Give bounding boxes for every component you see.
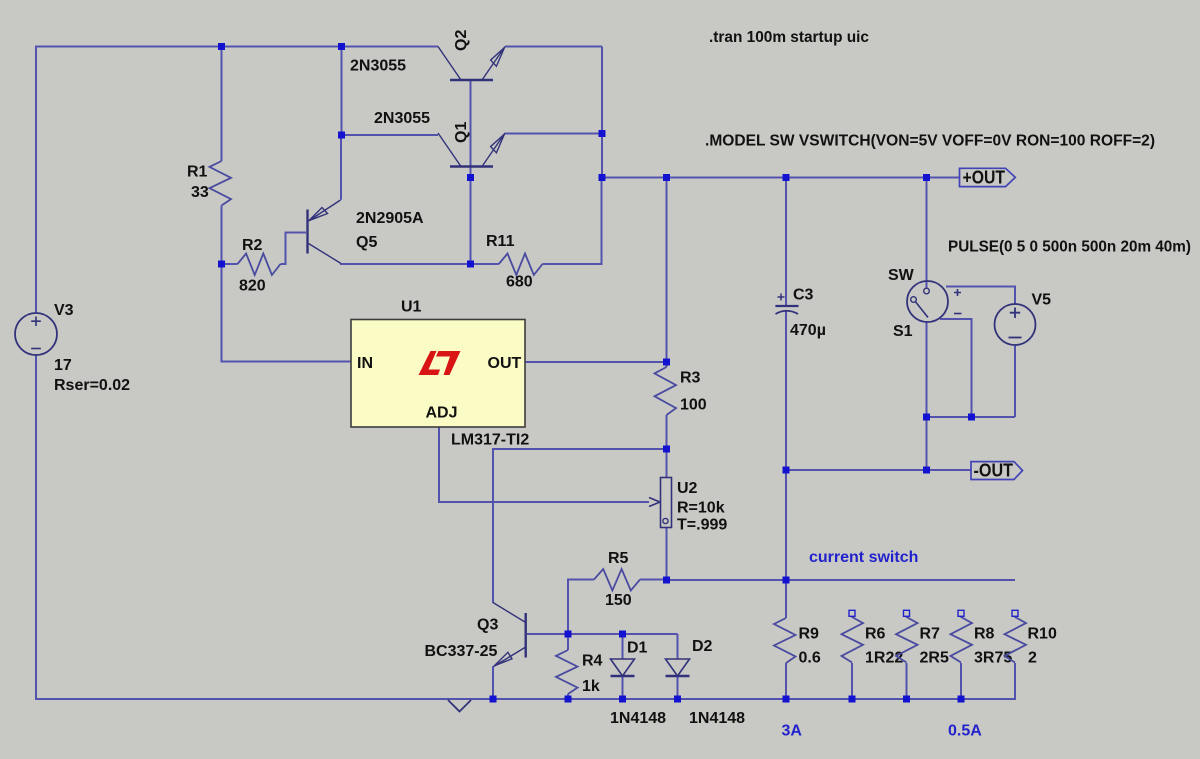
junction (221.5,264) [218,261,225,268]
svg-text:Q1: Q1 [453,122,470,143]
voltage source V3 [15,313,57,355]
transistor Q3 BC337-25 [493,603,526,667]
resistor R7 2R5 [896,617,949,667]
wire R8 stub [960,616,962,617]
svg-text:R9: R9 [799,626,820,643]
switch S1 (SW) [907,281,962,322]
resistor R8 3R75 [951,617,1013,667]
svg-text:2N3055: 2N3055 [350,58,406,75]
svg-text:820: 820 [239,278,266,295]
svg-text:1N4148: 1N4148 [689,710,745,727]
svg-text:17: 17 [54,357,72,374]
svg-text:2: 2 [1028,650,1037,667]
wire Q5 collector run [340,263,471,265]
wire +OUT rail [602,177,960,179]
svg-text:680: 680 [506,274,533,291]
flag -OUT [971,461,1023,481]
junction (971.5,417) [968,414,975,421]
wire R7 bottom lead [906,663,908,699]
svg-text:2N2905A: 2N2905A [356,210,424,227]
svg-text:3A: 3A [782,723,803,740]
wire R5 left lead and drop [568,580,594,635]
transistor Q2 2N3055 [438,30,505,80]
svg-text:R11: R11 [486,233,515,250]
junction (786,699) [783,696,790,703]
svg-text:BC337-25: BC337-25 [425,643,498,660]
wire R9 top lead [785,580,787,618]
wire D1 cathode lead [622,676,624,699]
flag +OUT [960,168,1016,188]
svg-text:current switch: current switch [809,549,918,566]
svg-text:Q5: Q5 [356,234,377,251]
wire D2 anode drop [677,634,679,659]
svg-text:SW: SW [888,267,915,284]
resistor R4 1k [556,650,603,695]
svg-text:R7: R7 [920,626,941,643]
svg-text:U2: U2 [677,480,698,497]
wire R6 bottom lead [851,663,853,699]
transistor Q5 2N2905A [308,200,342,264]
wire V3 minus to ground rail [35,355,37,700]
junction (221.5,46.5) [218,43,225,50]
wire R11 left lead [471,263,499,265]
svg-text:-OUT: -OUT [974,461,1014,481]
wire -OUT rail [786,469,971,471]
junction (568,634) [565,631,572,638]
resistor R1 33 [187,161,231,206]
svg-text:2R5: 2R5 [920,650,949,667]
svg-text:+OUT: +OUT [963,168,1006,188]
svg-text:.MODEL SW VSWITCH(VON=5V VOFF=: .MODEL SW VSWITCH(VON=5V VOFF=0V RON=100… [705,133,1155,150]
wire SW bottom drop [926,322,928,471]
wire Q3 base line [527,633,678,635]
wire R2 node down to U1 IN [222,264,352,362]
junction (786,580) [783,577,790,584]
wire R6 stub [851,616,853,617]
svg-text:S1: S1 [893,323,913,340]
wire R1 bottom to R2 node [221,206,223,265]
svg-text:ADJ: ADJ [426,405,458,422]
diode D1 1N4148 [611,659,635,676]
svg-text:R1: R1 [187,164,208,181]
wire R4 top lead [567,634,569,650]
svg-text:100: 100 [680,397,707,414]
wire transistor base bus [470,80,472,264]
svg-text:470µ: 470µ [790,322,826,339]
resistor R2 820 [238,237,281,295]
wire SW ctrl- run [940,319,972,417]
wire R5 right lead [640,579,667,581]
junction (470.5,264) [467,261,474,268]
regulator U1 LM317-TI2 [351,320,525,428]
svg-text:Q2: Q2 [453,30,470,51]
svg-text:1k: 1k [582,678,600,695]
wire SW ctrl+ to V5 top [946,287,1015,305]
wire R2 left lead [222,263,238,265]
wire R3 bottom to U2 top [666,415,668,478]
wire Q3 collector riser [493,449,667,603]
junction (926.5,177.5) [923,174,930,181]
capacitor C3 470u [775,294,798,315]
wire Q1 emitter run [505,133,602,135]
wire R2 right lead to Q5 base [281,233,307,265]
svg-text:PULSE(0 5 0 500n 500n 20m 40m): PULSE(0 5 0 500n 500n 20m 40m) [948,239,1191,256]
wire R7 stub [906,616,908,617]
svg-text:1N4148: 1N4148 [610,710,666,727]
svg-text:D1: D1 [627,640,648,657]
wire R8 bottom lead [960,663,962,699]
wire R9 bottom lead [785,663,787,699]
svg-text:R8: R8 [974,626,995,643]
wire ground rail [35,698,1015,700]
svg-text:D2: D2 [692,638,713,655]
wire R1 top drop [221,47,223,162]
junction (602,177.5) [599,174,606,181]
svg-text:33: 33 [191,184,209,201]
diode D2 1N4148 [666,659,690,676]
wire U1 ADJ drop [439,427,649,502]
svg-text:U1: U1 [401,299,422,316]
svg-text:T=.999: T=.999 [677,517,727,534]
wire R11 right lead up to rail [543,178,602,265]
wire Q-base feed drop [341,47,343,136]
junction (341.5,46.5) [338,43,345,50]
wire C3 top lead [785,178,787,306]
wire D1 anode lead [622,634,624,659]
svg-text:2N3055: 2N3055 [374,110,430,127]
junction (666.5,449) [663,446,670,453]
wire top input rail [36,46,438,48]
junction (341.5,135) [338,132,345,139]
wire R3 top drop [666,178,668,368]
svg-text:R3: R3 [680,370,701,387]
resistor R9 0.6 [774,618,821,667]
svg-text:R2: R2 [242,237,263,254]
wire -OUT rail to current-switch node [785,470,787,580]
wire R10 bottom lead [1014,663,1016,700]
floating pin marker (961) [958,610,964,616]
junction (470.5,177.5) [467,174,474,181]
svg-text:LM317-TI2: LM317-TI2 [451,432,529,449]
svg-text:R=10k: R=10k [677,500,725,517]
svg-text:R10: R10 [1028,626,1057,643]
wire R4 bottom lead [567,694,569,699]
wire current switch line [667,579,1016,581]
resistor R5 150 [594,550,640,609]
wire D2 cathode lead [677,676,679,699]
wire Q2 emitter to output drop [505,46,602,48]
wire U2 bottom drop [666,528,668,581]
ground [448,700,471,712]
resistor R6 1R22 [842,617,904,667]
junction (677.5,699) [674,696,681,703]
voltage source V5 [995,304,1036,345]
svg-text:V5: V5 [1032,292,1052,309]
wire R10 stub [1014,616,1016,617]
svg-text:0.5A: 0.5A [948,723,982,740]
wire Q1 collector branch [342,134,439,136]
junction (961,699) [958,696,965,703]
svg-text:IN: IN [357,355,373,372]
junction (666.5,362) [663,359,670,366]
resistor R10 2 [1005,617,1057,667]
junction (906.5,699) [903,696,910,703]
junction (622.5,634) [619,631,626,638]
svg-text:150: 150 [605,592,632,609]
junction (493,699) [490,696,497,703]
svg-text:R4: R4 [582,653,603,670]
transistor Q1 2N3055 [438,122,505,167]
wire V5 return run [927,416,1016,418]
floating pin marker (906.5) [904,610,910,616]
svg-text:1R22: 1R22 [865,650,903,667]
wire U1 OUT to R3 node [525,361,667,363]
svg-text:OUT: OUT [488,355,522,372]
junction (622.5,699) [619,696,626,703]
svg-text:C3: C3 [793,287,814,304]
junction (666.5,580) [663,577,670,584]
svg-text:.tran 100m startup uic: .tran 100m startup uic [709,29,869,46]
wire V5 bottom lead [1014,345,1016,418]
svg-text:R5: R5 [608,550,629,567]
floating pin marker (852) [849,610,855,616]
svg-text:0.6: 0.6 [799,650,821,667]
junction (666.5,177.5) [663,174,670,181]
junction (926.5,470) [923,467,930,474]
floating pin marker (1015) [1012,610,1018,616]
junction (786,177.5) [783,174,790,181]
junction (786,470) [783,467,790,474]
svg-text:R6: R6 [865,626,886,643]
wire Q3 emitter drop [492,666,494,699]
wire emitter drop x602 [601,47,603,178]
junction (602,133.5) [599,130,606,137]
potentiometer U2 [649,478,672,528]
wire left edge down to V3 [35,46,37,314]
wire SW top lead [926,178,928,289]
svg-text:Rser=0.02: Rser=0.02 [54,377,130,394]
resistor R11 680 [486,233,543,291]
junction (568,699) [565,696,572,703]
junction (852,699) [849,696,856,703]
junction (926.5,417) [923,414,930,421]
wire Q5 emitter riser [340,135,342,200]
svg-text:V3: V3 [54,302,74,319]
wire C3 bottom lead [785,312,787,471]
resistor R3 100 [655,367,707,415]
svg-text:Q3: Q3 [477,617,498,634]
